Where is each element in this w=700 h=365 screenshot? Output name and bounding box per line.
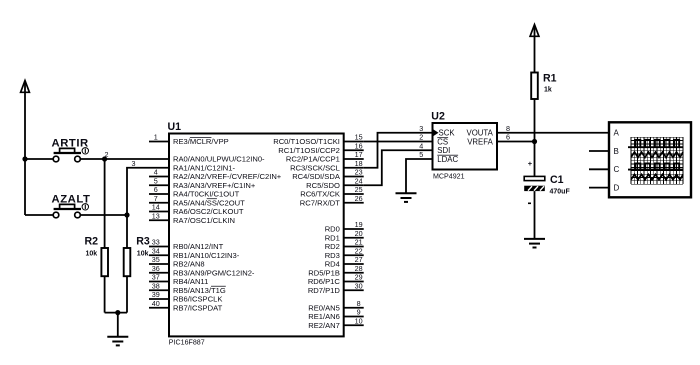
svg-text:18: 18 <box>355 159 363 168</box>
wire: U2 VOUTA to scope input A (node VOUT) <box>497 132 609 134</box>
junction: ARTIR/R2 node <box>102 156 107 161</box>
U1 pin 20 (RD1) <box>325 229 364 242</box>
U1 pin 13 (RA7/OSC1/CLKIN) <box>149 211 235 224</box>
svg-text:1: 1 <box>154 133 158 142</box>
ground (below C1) <box>524 239 545 248</box>
svg-text:RA7/OSC1/CLKIN: RA7/OSC1/CLKIN <box>173 216 235 225</box>
svg-text:RE2/AN7: RE2/AN7 <box>308 321 340 330</box>
power symbol (left VCC arrow) <box>21 81 30 93</box>
svg-text:CS: CS <box>437 137 448 146</box>
push button AZALT <box>53 204 88 218</box>
svg-text:5: 5 <box>419 150 423 159</box>
svg-text:RC2/P1A/CCP1: RC2/P1A/CCP1 <box>286 155 340 164</box>
svg-text:35: 35 <box>152 255 160 264</box>
wire: scope input C stub <box>589 168 609 170</box>
U1 pin 34 (RB1/AN10/C12IN3-) <box>149 246 240 259</box>
wire: VCC to R1 <box>534 36 536 72</box>
wire: left VCC rail vertical <box>24 92 26 215</box>
svg-text:1k: 1k <box>544 86 552 93</box>
U1 pin 5 (RA3/AN3/VREF+/C1IN+) <box>149 176 256 189</box>
svg-text:U1: U1 <box>168 121 182 133</box>
junction: rail to ARTIR <box>22 156 27 161</box>
wire: U2 VREFA to rail node <box>497 141 535 143</box>
wire: vertical node to U1 pin 3 (node RA1) <box>127 168 169 248</box>
svg-text:RE3/MCLR/VPP: RE3/MCLR/VPP <box>173 137 229 146</box>
display block (scope) body <box>609 122 691 197</box>
wire: rail to ARTIR left terminal <box>25 158 53 160</box>
U1 pin 37 (RB4/AN11) <box>149 273 208 286</box>
U1 pin 39 (RB6/ICSPCLK) <box>149 290 222 303</box>
svg-text:5: 5 <box>154 176 158 185</box>
svg-text:RE1/AN6: RE1/AN6 <box>308 312 340 321</box>
svg-text:AZALT: AZALT <box>52 193 91 205</box>
capacitor C1 <box>524 176 545 191</box>
ground (U2 LDAC) <box>396 193 417 202</box>
wire: R2-R3 bottom join <box>105 312 127 314</box>
svg-text:VOUTA: VOUTA <box>467 129 494 138</box>
U1 pin 1 (RE3/MCLR/VPP) <box>149 133 229 146</box>
svg-text:U2: U2 <box>431 111 445 123</box>
power symbol (right VCC arrow) <box>530 25 539 37</box>
U1 pin 27 (RD4) <box>325 255 364 268</box>
U1 pin 36 (RB3/AN9/PGM/C12IN2-) <box>149 264 255 277</box>
junction: AZALT/R3 node <box>124 212 129 217</box>
svg-text:6: 6 <box>154 185 158 194</box>
svg-text:14: 14 <box>152 203 160 212</box>
svg-text:RB4/AN11: RB4/AN11 <box>173 277 208 286</box>
U1 pin 21 (RD2) <box>325 238 364 251</box>
svg-text:4: 4 <box>419 141 423 150</box>
svg-text:RC0/T1OSO/T1CKI: RC0/T1OSO/T1CKI <box>273 137 340 146</box>
U1 pin 17 (RC2/P1A/CCP1) <box>286 150 364 163</box>
svg-text:RD7/P1D: RD7/P1D <box>308 286 341 295</box>
scope screen grid <box>631 137 683 184</box>
svg-text:40: 40 <box>152 299 160 308</box>
svg-text:2: 2 <box>419 133 423 142</box>
svg-text:RB5/AN13/T1G: RB5/AN13/T1G <box>173 286 226 295</box>
svg-text:RC7/RX/DT: RC7/RX/DT <box>300 198 340 207</box>
svg-text:16: 16 <box>355 141 363 150</box>
svg-text:27: 27 <box>355 255 363 264</box>
wire: R3 bottom <box>126 276 128 312</box>
svg-text:R2: R2 <box>85 235 99 247</box>
svg-text:26: 26 <box>355 194 363 203</box>
svg-text:SDI: SDI <box>437 146 450 155</box>
svg-text:22: 22 <box>355 246 363 255</box>
svg-text:RC4/SDI/SDA: RC4/SDI/SDA <box>292 172 341 181</box>
svg-text:C1: C1 <box>550 174 564 186</box>
wire: R1 to VREFA node and C1 <box>534 99 536 176</box>
U1 pin 8 (RE0/AN5) <box>308 299 363 312</box>
svg-text:33: 33 <box>152 238 160 247</box>
svg-text:36: 36 <box>152 264 160 273</box>
wire: AZALT to vertical node <box>80 214 127 216</box>
U2 pin 4 SDI <box>419 141 450 155</box>
svg-text:RD0: RD0 <box>325 225 340 234</box>
svg-text:10k: 10k <box>86 251 98 258</box>
resistor R2 <box>101 248 108 276</box>
U1 pin 30 (RD7/P1D) <box>308 281 364 294</box>
svg-text:RB6/ICSPCLK: RB6/ICSPCLK <box>173 295 222 304</box>
junction: VREFA/R1/C1 node <box>532 139 537 144</box>
svg-text:C: C <box>614 165 620 174</box>
svg-text:RD3: RD3 <box>325 251 340 260</box>
U1 pin 16 (RC1/T1OSI/CCP2) <box>278 141 363 154</box>
svg-text:21: 21 <box>355 238 363 247</box>
svg-text:38: 38 <box>152 281 160 290</box>
capacitor C1 minus mark <box>528 203 531 205</box>
svg-text:RA4/T0CKI/C1OUT: RA4/T0CKI/C1OUT <box>173 190 240 199</box>
wire: U1 pin 24 to U2 SDI (node SDI) <box>364 150 433 185</box>
svg-text:RB2/AN8: RB2/AN8 <box>173 260 205 269</box>
U1 pin 26 (RC7/RX/DT) <box>300 194 364 207</box>
svg-text:VREFA: VREFA <box>467 137 493 146</box>
svg-text:7: 7 <box>154 194 158 203</box>
U1 pin 4 (RA2/AN2/VREF-/CVREF/C2IN+) <box>149 168 282 181</box>
svg-text:RB3/AN9/PGM/C12IN2-: RB3/AN9/PGM/C12IN2- <box>173 268 255 277</box>
U2 pin 5 LDAC <box>419 150 458 164</box>
svg-text:15: 15 <box>355 133 363 142</box>
svg-text:29: 29 <box>355 273 363 282</box>
svg-text:470uF: 470uF <box>550 188 571 195</box>
svg-text:10k: 10k <box>137 251 149 258</box>
svg-text:RA0/AN0/ULPWU/C12IN0-: RA0/AN0/ULPWU/C12IN0- <box>173 155 265 164</box>
svg-text:39: 39 <box>152 290 160 299</box>
U1 pin 9 (RE1/AN6) <box>308 308 363 321</box>
svg-text:SCK: SCK <box>439 129 456 138</box>
wire: rail corner to AZALT left terminal <box>25 214 53 216</box>
svg-text:MCP4921: MCP4921 <box>433 172 465 180</box>
U1 pin 6 (RA4/T0CKI/C1OUT) <box>149 185 240 198</box>
resistor R3 <box>124 248 131 276</box>
junction: R2/R3 ground node <box>115 310 120 315</box>
wire: C1 to ground <box>534 191 536 238</box>
push button ARTIR <box>53 148 88 162</box>
U1 pin 35 (RB2/AN8) <box>149 255 205 268</box>
U2 pin 8 VOUTA <box>467 124 510 138</box>
wire: U1 pin 18 to U2 SCK (node SCK) <box>364 133 433 168</box>
svg-text:RB0/AN12/INT: RB0/AN12/INT <box>173 242 224 251</box>
svg-text:3: 3 <box>419 124 423 133</box>
U1 pin 29 (RD6/P1C) <box>308 273 364 286</box>
U1 pin 23 (RC4/SDI/SDA) <box>292 168 363 181</box>
U1 pin 14 (RA6/OSC2/CLKOUT) <box>149 203 244 216</box>
svg-text:RB7/ICSPDAT: RB7/ICSPDAT <box>173 303 223 312</box>
svg-text:13: 13 <box>152 211 160 220</box>
svg-text:RE0/AN5: RE0/AN5 <box>308 303 340 312</box>
svg-text:RB1/AN10/C12IN3-: RB1/AN10/C12IN3- <box>173 251 240 260</box>
scope trace A (square wave) <box>628 146 683 148</box>
wire: node to ground <box>117 313 119 337</box>
svg-text:RC6/TX/CK: RC6/TX/CK <box>300 190 340 199</box>
wire: ARTIR to U1 pin 2 (node RA0) <box>80 158 169 160</box>
svg-text:9: 9 <box>357 308 361 317</box>
svg-text:19: 19 <box>355 220 363 229</box>
svg-text:8: 8 <box>357 299 361 308</box>
svg-text:6: 6 <box>506 133 510 142</box>
svg-text:RD4: RD4 <box>325 260 340 269</box>
U1 pin 38 (RB5/AN13/T1G) <box>149 281 226 294</box>
wire: scope input D stub <box>589 187 609 189</box>
U1 pin 33 (RB0/AN12/INT) <box>149 238 224 251</box>
svg-text:37: 37 <box>152 273 160 282</box>
ground (below R2/R3) <box>107 337 128 346</box>
svg-text:3: 3 <box>132 159 136 168</box>
U2 pin 6 VREFA <box>467 133 510 147</box>
U1 pin 19 (RD0) <box>325 220 364 233</box>
svg-text:A: A <box>614 129 620 138</box>
U1 pin 25 (RC6/TX/CK) <box>300 185 363 198</box>
svg-text:B: B <box>614 147 619 156</box>
U2 pin 3 SCK <box>419 124 455 138</box>
svg-text:20: 20 <box>355 229 363 238</box>
svg-text:RC3/SCK/SCL: RC3/SCK/SCL <box>290 163 340 172</box>
wire: node down to R2 <box>104 159 106 248</box>
resistor R1 <box>531 73 538 100</box>
svg-text:R3: R3 <box>136 235 150 247</box>
microcontroller U1 PIC16F887 body <box>169 134 344 337</box>
DAC U2 MCP4921 body <box>433 123 498 170</box>
U1 pin 7 (RA5/AN4/SS/C2OUT) <box>149 194 245 207</box>
wire: R2 bottom <box>104 276 106 312</box>
U2 pin 2 CS <box>419 133 448 147</box>
scope trace C (square wave) <box>628 169 683 171</box>
svg-text:RD6/P1C: RD6/P1C <box>308 277 341 286</box>
svg-text:25: 25 <box>355 185 363 194</box>
svg-text:RD5/P1B: RD5/P1B <box>308 268 340 277</box>
svg-text:23: 23 <box>355 168 363 177</box>
svg-text:4: 4 <box>154 168 158 177</box>
svg-text:28: 28 <box>355 264 363 273</box>
svg-text:RA3/AN3/VREF+/C1IN+: RA3/AN3/VREF+/C1IN+ <box>173 181 256 190</box>
svg-text:+: + <box>528 159 533 168</box>
U1 pin 18 (RC3/SCK/SCL) <box>290 159 364 172</box>
U1 pin 28 (RD5/P1B) <box>308 264 363 277</box>
U1 pin 2 (RA0/AN0/ULPWU/C12IN0-) <box>105 150 266 163</box>
scope trace B (triangle wave) <box>631 152 683 157</box>
U1 pin 10 (RE2/AN7) <box>308 316 363 329</box>
U1 pin 15 (RC0/T1OSO/T1CKI) <box>273 133 363 146</box>
U1 pin 22 (RD3) <box>325 246 364 259</box>
U1 pin 24 (RC5/SDO) <box>306 176 364 189</box>
svg-text:RC5/SDO: RC5/SDO <box>306 181 340 190</box>
svg-text:RA5/AN4/SS/C2OUT: RA5/AN4/SS/C2OUT <box>173 198 245 207</box>
svg-text:PIC16F887: PIC16F887 <box>169 339 205 347</box>
U1 pin 40 (RB7/ICSPDAT) <box>149 299 223 312</box>
svg-text:R1: R1 <box>543 72 557 84</box>
svg-text:24: 24 <box>355 176 363 185</box>
wire: scope input B stub <box>589 150 609 152</box>
svg-text:RC1/T1OSI/CCP2: RC1/T1OSI/CCP2 <box>278 146 340 155</box>
svg-text:10: 10 <box>355 316 363 325</box>
svg-text:30: 30 <box>355 281 363 290</box>
svg-text:D: D <box>614 184 620 193</box>
svg-text:RA6/OSC2/CLKOUT: RA6/OSC2/CLKOUT <box>173 207 244 216</box>
svg-text:2: 2 <box>105 150 109 159</box>
svg-text:RA1/AN1/C12IN1-: RA1/AN1/C12IN1- <box>173 163 236 172</box>
scope trace D (triangle wave) <box>631 174 683 179</box>
svg-text:RA2/AN2/VREF-/CVREF/C2IN+: RA2/AN2/VREF-/CVREF/C2IN+ <box>173 172 282 181</box>
U1 pin 3 (RA1/AN1/C12IN1-) <box>132 159 236 172</box>
wire: U2 LDAC to ground <box>406 159 433 193</box>
svg-text:RD1: RD1 <box>325 233 340 242</box>
svg-text:34: 34 <box>152 246 160 255</box>
svg-text:17: 17 <box>355 150 363 159</box>
svg-text:8: 8 <box>506 124 510 133</box>
wire: U1 pin 15 to U2 CS (node CS) <box>364 141 433 143</box>
svg-text:RD2: RD2 <box>325 242 340 251</box>
svg-text:LDAC: LDAC <box>437 155 458 164</box>
svg-text:ARTIR: ARTIR <box>52 137 89 149</box>
